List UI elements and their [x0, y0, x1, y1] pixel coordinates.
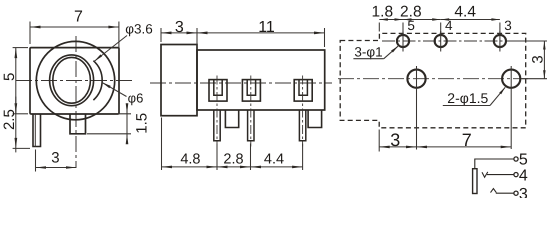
pin number label 3: [504, 18, 512, 33]
svg-text:3: 3: [390, 130, 400, 150]
svg-text:φ6: φ6: [128, 91, 144, 106]
side view: contact slot 2: [242, 80, 260, 102]
svg-text:φ3.6: φ3.6: [125, 22, 153, 37]
dimension 3 (front pin offset): [36, 150, 77, 172]
schematic: jack sleeve bar: [473, 169, 477, 194]
dimension 5 (front height): [1, 48, 28, 114]
svg-text:7: 7: [462, 130, 472, 150]
dimension 2.5 (pin drop): [1, 97, 30, 153]
svg-text:2.5: 2.5: [1, 109, 18, 130]
svg-text:3-φ1: 3-φ1: [354, 45, 382, 60]
side view: horizontal centerline: [150, 82, 332, 84]
side view: pin 3 centerline: [302, 76, 304, 147]
label 2-phi1.5 with leader: [443, 87, 505, 106]
svg-text:3: 3: [504, 18, 512, 33]
schematic: terminal 5 label: [519, 152, 528, 169]
side view: support stub 2: [308, 110, 322, 128]
dimension 2.8 (pin pitch): [217, 144, 251, 171]
svg-text:2.8: 2.8: [400, 3, 422, 20]
schematic: tip contact and wire to terminal 3: [491, 189, 514, 194]
pcb: mounting hole 2 (phi1.5): [502, 66, 520, 92]
dimension 3 (pcb bottom): [379, 92, 416, 152]
svg-text:3: 3: [530, 55, 547, 63]
schematic: terminal 5 circle: [514, 157, 518, 161]
schematic: terminal 3 label: [519, 186, 528, 203]
svg-text:3: 3: [519, 186, 528, 198]
schematic: wire to terminal 5: [475, 159, 514, 169]
pin number label 4: [445, 18, 453, 33]
svg-text:5: 5: [519, 152, 528, 169]
svg-text:4.4: 4.4: [264, 152, 284, 168]
schematic: terminal 3 circle: [514, 191, 518, 195]
front view: vertical centerline: [75, 36, 77, 168]
front view: outer bezel circle: [36, 41, 114, 119]
svg-text:4: 4: [519, 168, 528, 185]
front view: horizontal centerline: [16, 80, 133, 82]
front view: left solder pin: [33, 114, 41, 147]
side view: pin 2 centerline: [250, 76, 252, 147]
pcb: centerline through small holes: [382, 40, 523, 42]
pcb: hole pin 4 (phi1): [435, 31, 447, 52]
label phi3.6 with leader: [94, 22, 153, 62]
dimension 7 (front width): [30, 9, 119, 53]
svg-text:2.8: 2.8: [223, 152, 243, 168]
pcb: hole pin 3 (phi1): [494, 31, 506, 52]
side view: contact slot 3: [294, 80, 312, 102]
side view: contact slot 1: [209, 80, 227, 102]
svg-text:7: 7: [74, 9, 83, 26]
dimension 2.8 (pcb): [400, 3, 441, 33]
svg-text:2-φ1.5: 2-φ1.5: [447, 90, 488, 106]
side view: solder pin 3: [299, 110, 305, 141]
dimension 1.5 (tab height): [87, 103, 150, 144]
label phi6 with leader: [102, 82, 144, 105]
front view: hole circle phi3.6: [53, 57, 91, 103]
dimension 7 (pcb bottom): [417, 92, 512, 150]
schematic: terminal 4 circle: [514, 173, 518, 177]
dimension 4.4 (pin pitch): [251, 144, 303, 171]
side view: barrel block: [161, 45, 197, 116]
dimension 3 (pcb vertical): [508, 41, 547, 79]
pcb outline (dashed): [340, 33, 526, 127]
pcb: centerline through big holes: [338, 78, 528, 80]
svg-text:11: 11: [258, 19, 275, 36]
pcb: hole pin 5 (phi1): [397, 31, 409, 52]
dimension 4.8 (pin pitch): [162, 118, 218, 171]
side view: pin 1 centerline: [216, 76, 218, 147]
pin number label 5: [407, 18, 415, 33]
front view: bottom mounting tab: [70, 114, 86, 134]
svg-text:4.8: 4.8: [180, 152, 200, 168]
dimension 4.4 (pcb): [441, 3, 500, 33]
schematic: terminal 4 label: [519, 168, 528, 185]
side view: solder pin 1: [214, 110, 220, 141]
svg-text:1.5: 1.5: [133, 113, 150, 134]
svg-text:1.8: 1.8: [372, 3, 394, 20]
dimension 11 (body length): [197, 19, 325, 47]
front view: counterbore arc phi6: [93, 61, 102, 100]
pcb: mounting hole 1 (phi1.5): [407, 66, 425, 92]
side view: main body: [197, 50, 325, 110]
svg-text:3: 3: [175, 19, 184, 36]
side view: solder pin 2: [248, 110, 254, 141]
svg-text:3: 3: [51, 150, 59, 167]
label 3-phi1 with leader: [353, 45, 398, 60]
schematic: switch contact and wire to terminal 4: [482, 172, 514, 177]
dimension 1.8: [372, 3, 403, 33]
dimension 3 (barrel length): [161, 19, 197, 47]
front view: square body outline: [30, 48, 119, 114]
front view: hole chamfer ring outer: [50, 55, 94, 106]
side view: support stub 1: [225, 110, 238, 128]
svg-text:5: 5: [1, 73, 18, 81]
svg-text:4.4: 4.4: [454, 3, 476, 20]
